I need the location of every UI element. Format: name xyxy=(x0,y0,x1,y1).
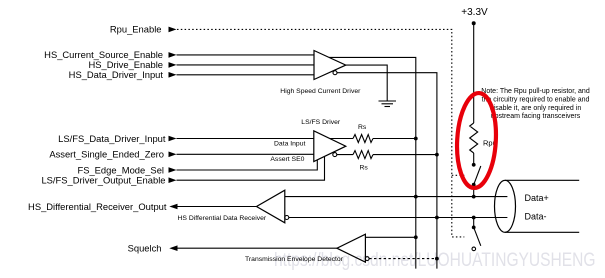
svg-text:disable it, are only required: disable it, are only required in xyxy=(490,105,582,112)
svg-text:HS_Differential_Receiver_Outpu: HS_Differential_Receiver_Output xyxy=(28,201,167,212)
svg-text:High Speed Current Driver: High Speed Current Driver xyxy=(280,88,361,95)
svg-text:Data+: Data+ xyxy=(525,193,549,203)
svg-text:Squelch: Squelch xyxy=(128,243,162,254)
svg-text:HS Differential Data Receiver: HS Differential Data Receiver xyxy=(178,215,267,222)
svg-text:upstream facing transceivers: upstream facing transceivers xyxy=(491,113,581,120)
svg-text:the circuitry required to enab: the circuitry required to enable and xyxy=(482,97,590,104)
svg-text:Rs: Rs xyxy=(358,124,367,131)
svg-text:Data Input: Data Input xyxy=(274,141,305,148)
svg-text:Transmission Envelope Detector: Transmission Envelope Detector xyxy=(245,256,344,263)
svg-text:+3.3V: +3.3V xyxy=(461,7,488,18)
svg-text:LS/FS Driver: LS/FS Driver xyxy=(301,119,341,126)
svg-text:Assert_Single_Ended_Zero: Assert_Single_Ended_Zero xyxy=(49,149,164,160)
svg-text:Data-: Data- xyxy=(525,212,547,222)
svg-text:Rpu_Enable: Rpu_Enable xyxy=(110,24,162,35)
svg-text:Assert SE0: Assert SE0 xyxy=(270,156,304,163)
svg-text:LS/FS_Data_Driver_Input: LS/FS_Data_Driver_Input xyxy=(58,133,166,144)
svg-text:Rs: Rs xyxy=(360,165,369,172)
svg-text:Note: The Rpu pull-up resisto: Note: The Rpu pull-up resistor, and xyxy=(481,88,590,95)
svg-text:HS_Data_Driver_Input: HS_Data_Driver_Input xyxy=(69,69,164,80)
svg-text:LS/FS_Driver_Output_Enable: LS/FS_Driver_Output_Enable xyxy=(41,175,165,186)
